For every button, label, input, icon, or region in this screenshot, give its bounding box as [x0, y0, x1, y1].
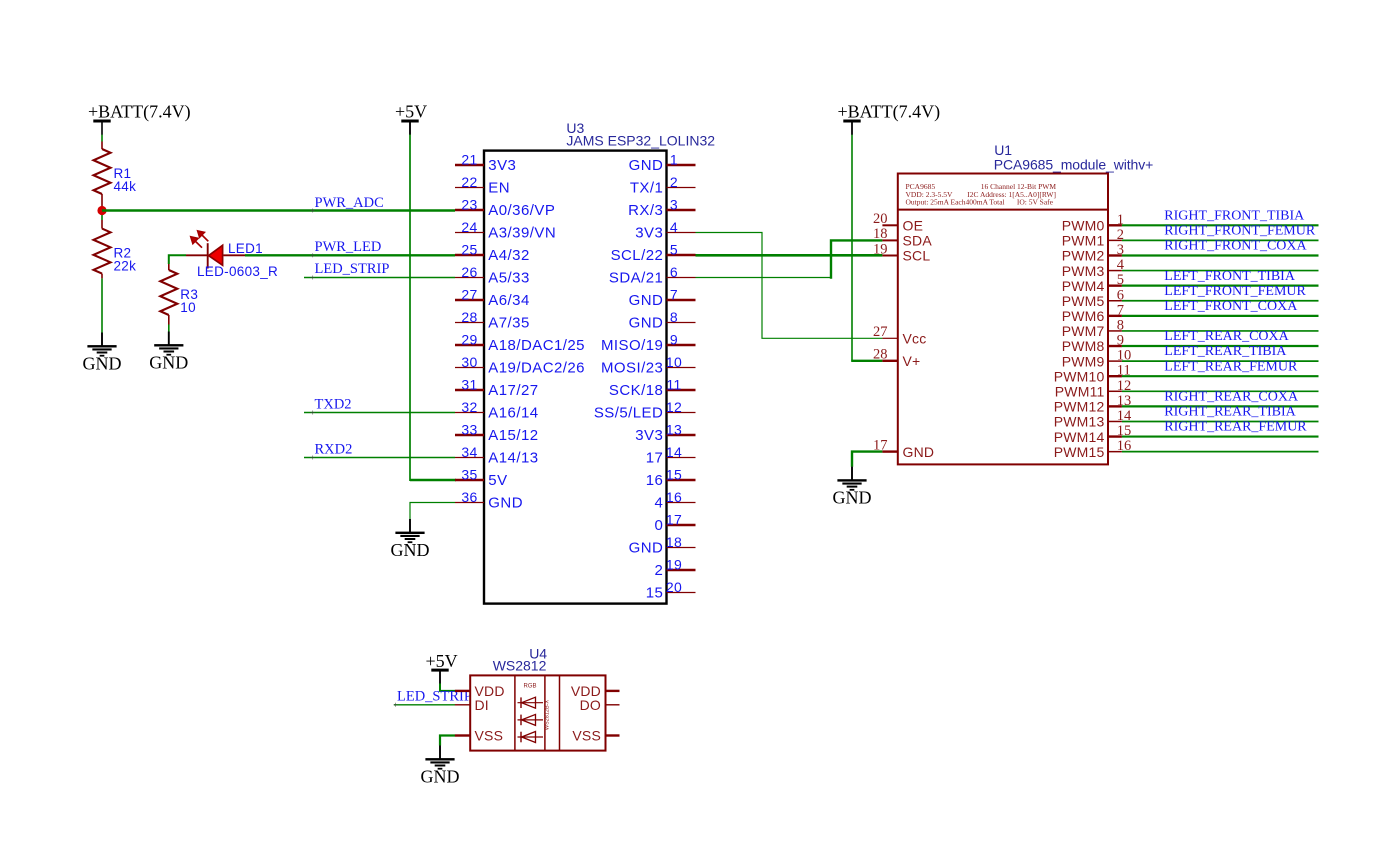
svg-text:27: 27 — [873, 324, 888, 340]
U1 pin 8 PWM7 — [1108, 330, 1122, 332]
lead R2 bottom — [101, 274, 103, 279]
svg-text:19: 19 — [873, 241, 888, 257]
svg-text:24: 24 — [461, 219, 477, 235]
wire +5V vertical — [409, 135, 411, 482]
svg-text:28: 28 — [461, 309, 477, 325]
svg-text:8: 8 — [670, 309, 678, 325]
svg-text:6: 6 — [670, 264, 678, 280]
svg-text:LEFT_REAR_FEMUR: LEFT_REAR_FEMUR — [1164, 359, 1298, 374]
U3 pin 27 A6/34 — [455, 299, 484, 302]
stem +BATT right — [851, 122, 853, 135]
svg-text:3: 3 — [670, 197, 678, 213]
svg-text:A5/33: A5/33 — [488, 270, 529, 287]
wire SCL net — [696, 254, 883, 257]
svg-text:RIGHT_REAR_FEMUR: RIGHT_REAR_FEMUR — [1164, 420, 1307, 435]
U3 pin 36 GND — [455, 502, 484, 504]
lead LED1 anode — [223, 254, 245, 256]
wire PWM3 net — [1122, 270, 1319, 272]
svg-text:PWR_LED: PWR_LED — [315, 239, 382, 255]
wire PWR_ADC net — [102, 209, 455, 211]
svg-text:TX/1: TX/1 — [630, 180, 663, 197]
U3 pin 11 SCK/18 — [667, 389, 696, 392]
svg-text:9: 9 — [670, 332, 678, 348]
svg-text:+5V: +5V — [395, 102, 427, 122]
U1 pin 16 PWM15 — [1108, 451, 1122, 453]
svg-text:PWM15: PWM15 — [1054, 444, 1105, 460]
wire U4 VSS to GND — [440, 736, 455, 746]
svg-text:A14/13: A14/13 — [488, 450, 538, 467]
U1 header separator — [898, 209, 1108, 211]
svg-text:A6/34: A6/34 — [488, 292, 529, 309]
svg-text:5: 5 — [670, 242, 678, 258]
svg-text:RXD2: RXD2 — [315, 441, 353, 457]
wire PWM13 net — [1122, 420, 1319, 422]
U1 pin 18 SDA — [882, 239, 897, 241]
U3 pin 2 TX/1 — [667, 187, 696, 189]
U1 pin 11 PWM10 — [1108, 375, 1122, 377]
U3 pin 5 SCL/22 — [667, 254, 696, 257]
svg-text:30: 30 — [461, 354, 477, 370]
svg-text:MOSI/23: MOSI/23 — [601, 360, 663, 377]
wire PWM6 net — [1122, 315, 1319, 317]
svg-text:GND: GND — [391, 540, 430, 560]
svg-text:PWM13: PWM13 — [1054, 414, 1105, 430]
LED LED1 — [207, 243, 209, 268]
wire PWR_LED corner — [169, 255, 186, 264]
svg-text:A4/32: A4/32 — [488, 247, 529, 264]
U3 pin 20 15 — [667, 592, 696, 594]
svg-text:PWM1: PWM1 — [1062, 233, 1105, 249]
svg-text:16: 16 — [666, 489, 682, 505]
U3 pin 25 A4/32 — [455, 254, 484, 257]
svg-text:PWM5: PWM5 — [1062, 293, 1105, 309]
svg-text:44k: 44k — [114, 179, 137, 194]
svg-text:VSS: VSS — [572, 728, 601, 744]
ground symbol GND under U3 — [409, 519, 411, 532]
U1 pin 12 PWM11 — [1108, 390, 1122, 392]
svg-text:LEFT_REAR_COXA: LEFT_REAR_COXA — [1164, 329, 1289, 344]
svg-text:2: 2 — [655, 562, 664, 579]
svg-text:SDA: SDA — [903, 233, 933, 249]
wire 3V3 pin4 to Vcc — [696, 233, 883, 339]
lead R1 bottom — [101, 194, 103, 206]
svg-text:LED1: LED1 — [228, 241, 263, 256]
svg-text:23: 23 — [461, 197, 477, 213]
svg-text:EN: EN — [488, 180, 510, 197]
wire PWM4 net — [1122, 285, 1319, 287]
U3 pin 1 GND — [667, 164, 696, 167]
U1 pin 17 GND — [882, 450, 897, 452]
U3 pin 15 16 — [667, 479, 696, 482]
svg-text:PWR_ADC: PWR_ADC — [315, 195, 384, 211]
svg-text:PWM14: PWM14 — [1054, 429, 1105, 445]
svg-text:A18/DAC1/25: A18/DAC1/25 — [488, 337, 585, 354]
U3 pin 22 EN — [455, 187, 484, 189]
U1 pin 19 SCL — [882, 255, 897, 257]
svg-text:3V3: 3V3 — [635, 225, 663, 242]
U3 pin 17 0 — [667, 524, 696, 527]
U3 pin 13 3V3 — [667, 434, 696, 437]
U1 pin 15 PWM14 — [1108, 435, 1122, 437]
U3 pin 30 A19/DAC2/26 — [455, 367, 484, 369]
svg-text:RGB: RGB — [523, 684, 536, 690]
svg-text:LEFT_FRONT_COXA: LEFT_FRONT_COXA — [1164, 299, 1298, 314]
svg-text:SS/5/LED: SS/5/LED — [594, 405, 663, 422]
U4 internal LED 2 — [518, 719, 544, 721]
svg-text:PWM9: PWM9 — [1062, 353, 1105, 369]
wire R2 to GND — [101, 278, 103, 332]
svg-text:WS2812B-X: WS2812B-X — [545, 700, 551, 731]
U1 pin 27 Vcc — [882, 337, 897, 339]
svg-text:LEFT_FRONT_FEMUR: LEFT_FRONT_FEMUR — [1164, 284, 1306, 299]
wire SDA net — [696, 277, 832, 279]
svg-text:A7/35: A7/35 — [488, 315, 529, 332]
wire TXD2 net — [304, 412, 455, 414]
svg-text:20: 20 — [873, 211, 888, 227]
svg-text:18: 18 — [873, 226, 888, 242]
U3 pin 34 A14/13 — [455, 457, 484, 459]
svg-text:TXD2: TXD2 — [315, 396, 352, 412]
svg-text:17: 17 — [873, 437, 888, 453]
svg-text:31: 31 — [461, 377, 477, 393]
svg-text:GND: GND — [833, 488, 872, 508]
svg-text:12: 12 — [666, 399, 682, 415]
U4 internal LED 3 — [518, 736, 544, 738]
svg-text:22: 22 — [461, 174, 477, 190]
svg-text:+5V: +5V — [426, 651, 458, 671]
svg-text:29: 29 — [461, 332, 477, 348]
U3 pin 29 A18/DAC1/25 — [455, 344, 484, 347]
stem +5V — [409, 122, 411, 135]
U3 pin 32 A16/14 — [455, 412, 484, 414]
svg-text:JAMS ESP32_LOLIN32: JAMS ESP32_LOLIN32 — [566, 132, 715, 148]
svg-text:Vcc: Vcc — [903, 331, 927, 347]
lead LED1 cathode — [186, 254, 208, 256]
junction node PWR_ADC — [97, 206, 106, 215]
U1 pin 9 PWM8 — [1108, 345, 1122, 347]
svg-text:A0/36/VP: A0/36/VP — [488, 202, 555, 219]
wire +BATT to V+ — [851, 135, 853, 361]
svg-text:18: 18 — [666, 534, 682, 550]
svg-text:32: 32 — [461, 399, 477, 415]
svg-text:15: 15 — [666, 467, 682, 483]
U3 pin 16 4 — [667, 502, 696, 504]
wire LED_STRIP net — [304, 277, 455, 279]
U3 pin 33 A15/12 — [455, 434, 484, 437]
U3 pin 14 17 — [667, 457, 696, 459]
svg-text:17: 17 — [666, 512, 682, 528]
svg-text:DO: DO — [580, 697, 601, 713]
svg-text:27: 27 — [461, 287, 477, 303]
svg-text:25: 25 — [461, 242, 477, 258]
svg-text:3V3: 3V3 — [488, 157, 516, 174]
U4 pin VSS left — [455, 734, 470, 736]
U1 pin 5 PWM4 — [1108, 284, 1122, 286]
svg-text:OE: OE — [903, 218, 924, 234]
U3 pin 23 A0/36/VP — [455, 209, 484, 212]
wire PWM1 net — [1122, 239, 1319, 241]
svg-text:22k: 22k — [114, 259, 137, 274]
svg-text:GND: GND — [629, 315, 664, 332]
svg-text:PWM12: PWM12 — [1054, 399, 1105, 415]
U1 pin 6 PWM5 — [1108, 300, 1122, 302]
svg-text:RX/3: RX/3 — [628, 202, 663, 219]
svg-text:PWM4: PWM4 — [1062, 278, 1105, 294]
svg-text:10: 10 — [180, 300, 196, 315]
svg-text:34: 34 — [461, 444, 477, 460]
wire PWM12 net — [1122, 405, 1319, 407]
wire R3 to GND — [168, 325, 170, 332]
svg-text:0: 0 — [655, 517, 664, 534]
svg-text:SDA/21: SDA/21 — [609, 270, 663, 287]
lead R2 top — [101, 220, 103, 229]
svg-text:35: 35 — [461, 467, 477, 483]
U3 pin 26 A5/33 — [455, 277, 484, 279]
U3 pin 9 MISO/19 — [667, 344, 696, 347]
resistor R3 — [160, 270, 177, 315]
svg-text:1: 1 — [670, 152, 678, 168]
U1 pin 3 PWM2 — [1108, 254, 1122, 256]
svg-text:SCL/22: SCL/22 — [611, 247, 664, 264]
svg-text:VSS: VSS — [475, 728, 504, 744]
svg-text:13: 13 — [666, 422, 682, 438]
ground symbol GND under U4 — [439, 746, 441, 759]
ground symbol GND under U1 — [851, 467, 853, 480]
U3 pin 19 2 — [667, 569, 696, 572]
svg-text:PWM7: PWM7 — [1062, 323, 1105, 339]
U1 pin 20 OE — [882, 224, 897, 226]
svg-text:A19/DAC2/26: A19/DAC2/26 — [488, 360, 585, 377]
wire R1 to junction — [101, 206, 103, 220]
svg-text:28: 28 — [873, 347, 888, 363]
U3 pin 6 SDA/21 — [667, 277, 696, 279]
svg-text:GND: GND — [629, 292, 664, 309]
svg-text:WS2812: WS2812 — [493, 657, 547, 673]
svg-text:4: 4 — [670, 219, 678, 235]
wire PWM2 net — [1122, 254, 1319, 256]
svg-text:16: 16 — [646, 472, 664, 489]
svg-text:PCA9685_module_withv+: PCA9685_module_withv+ — [994, 156, 1153, 172]
IC U1 PCA9685_module_withv+ — [898, 174, 1108, 465]
wire LED_STRIP to U4 DI — [394, 704, 455, 706]
U4 divider 3 — [559, 675, 561, 750]
svg-text:LED_STRIP: LED_STRIP — [315, 261, 390, 277]
svg-text:2: 2 — [670, 174, 678, 190]
svg-text:11: 11 — [666, 377, 681, 393]
wire PWM11 net — [1122, 390, 1319, 392]
svg-text:17: 17 — [646, 450, 664, 467]
lead R3 top — [168, 264, 170, 270]
U1 pin 10 PWM9 — [1108, 360, 1122, 362]
svg-text:26: 26 — [461, 264, 477, 280]
svg-text:RIGHT_REAR_COXA: RIGHT_REAR_COXA — [1164, 389, 1299, 404]
U4 pin DO right — [606, 704, 620, 706]
lead R1 top — [101, 142, 103, 150]
svg-text:LEFT_FRONT_TIBIA: LEFT_FRONT_TIBIA — [1164, 269, 1296, 284]
svg-text:Output: 25mA Each400mA Total: Output: 25mA Each400mA Total — [906, 198, 1005, 207]
svg-text:V+: V+ — [903, 353, 921, 369]
svg-text:GND: GND — [629, 540, 664, 557]
U1 pin 4 PWM3 — [1108, 270, 1122, 272]
svg-text:IO: 5V Safe: IO: 5V Safe — [1017, 198, 1054, 207]
U3 pin 24 A3/39/VN — [455, 232, 484, 234]
wire U1 GND pin17 — [852, 452, 882, 467]
U1 pin 7 PWM6 — [1108, 315, 1122, 317]
wire +5V to U4 VDD — [440, 684, 455, 691]
svg-text:RIGHT_FRONT_COXA: RIGHT_FRONT_COXA — [1164, 239, 1307, 254]
wire RXD2 net — [304, 457, 455, 459]
svg-text:GND: GND — [83, 354, 122, 374]
U3 pin 7 GND — [667, 299, 696, 302]
svg-text:RIGHT_REAR_TIBIA: RIGHT_REAR_TIBIA — [1164, 405, 1296, 420]
U3 pin 31 A17/27 — [455, 389, 484, 392]
svg-text:MISO/19: MISO/19 — [601, 337, 663, 354]
svg-text:DI: DI — [475, 697, 489, 713]
ground symbol GND under R3 — [168, 332, 170, 345]
wire +5V to pin35 — [410, 479, 456, 482]
svg-text:GND: GND — [629, 157, 664, 174]
U4 divider 2 — [544, 675, 546, 750]
U4 divider 1 — [514, 675, 516, 750]
wire pin36 to GND — [410, 503, 455, 520]
svg-text:3V3: 3V3 — [635, 427, 663, 444]
resistor R1 — [94, 149, 111, 194]
svg-text:A15/12: A15/12 — [488, 427, 538, 444]
svg-text:7: 7 — [670, 287, 678, 303]
stem +5V U4 — [439, 671, 441, 684]
U4 pin DI left — [455, 704, 470, 706]
svg-text:PWM3: PWM3 — [1062, 263, 1105, 279]
wire PWM5 net — [1122, 300, 1319, 302]
svg-text:GND: GND — [903, 444, 935, 460]
wire PWM10 net — [1122, 375, 1319, 377]
svg-text:GND: GND — [421, 767, 460, 787]
U3 pin 4 3V3 — [667, 232, 696, 234]
svg-text:33: 33 — [461, 422, 477, 438]
U3 pin 8 GND — [667, 322, 696, 324]
svg-text:20: 20 — [666, 579, 682, 595]
wire PWM7 net — [1122, 330, 1319, 332]
svg-text:PWM10: PWM10 — [1054, 368, 1105, 384]
svg-text:PWM0: PWM0 — [1062, 218, 1105, 234]
U4 pin VSS right — [606, 734, 620, 736]
U3 pin 21 3V3 — [455, 164, 484, 167]
svg-text:SCL: SCL — [903, 248, 931, 264]
lead R3 bottom — [168, 315, 170, 325]
wire PWM9 net — [1122, 360, 1319, 362]
svg-text:PWM11: PWM11 — [1055, 383, 1105, 399]
svg-text:GND: GND — [149, 353, 188, 373]
wire PWM14 net — [1122, 435, 1319, 437]
U4 pin VDD left — [455, 690, 470, 692]
U3 pin 10 MOSI/23 — [667, 367, 696, 369]
svg-text:A3/39/VN: A3/39/VN — [488, 225, 556, 242]
svg-text:A17/27: A17/27 — [488, 382, 538, 399]
wire PWM15 net — [1122, 451, 1319, 453]
U3 pin 18 GND — [667, 547, 696, 549]
U3 pin 12 SS/5/LED — [667, 412, 696, 414]
svg-text:PWM2: PWM2 — [1062, 248, 1105, 264]
svg-text:LED-0603_R: LED-0603_R — [197, 264, 278, 279]
svg-text:36: 36 — [461, 489, 477, 505]
svg-text:A16/14: A16/14 — [488, 405, 538, 422]
U1 pin 13 PWM12 — [1108, 405, 1122, 407]
U3 pin 3 RX/3 — [667, 209, 696, 212]
U1 pin 28 V+ — [882, 360, 897, 362]
wire PWM8 net — [1122, 345, 1319, 347]
resistor R2 — [94, 229, 111, 274]
U1 pin 2 PWM1 — [1108, 239, 1122, 241]
svg-text:19: 19 — [666, 557, 682, 573]
svg-text:4: 4 — [655, 495, 664, 512]
wire PWM0 net — [1122, 224, 1319, 226]
ground symbol GND under R2 — [101, 333, 103, 346]
U4 internal LED 1 — [518, 702, 544, 704]
U3 pin 35 5V — [455, 479, 484, 482]
svg-text:LEFT_REAR_TIBIA: LEFT_REAR_TIBIA — [1164, 344, 1287, 359]
U3 pin 28 A7/35 — [455, 322, 484, 324]
svg-text:PWM6: PWM6 — [1062, 308, 1105, 324]
svg-text:PWM8: PWM8 — [1062, 338, 1105, 354]
U4 pin VDD right — [606, 690, 620, 692]
U1 pin 1 PWM0 — [1108, 224, 1122, 226]
svg-text:RIGHT_FRONT_TIBIA: RIGHT_FRONT_TIBIA — [1164, 208, 1305, 223]
U1 pin 14 PWM13 — [1108, 420, 1122, 422]
svg-text:15: 15 — [646, 585, 664, 602]
svg-text:10: 10 — [666, 354, 682, 370]
svg-text:14: 14 — [666, 444, 682, 460]
wire PWR_LED net — [245, 254, 455, 256]
svg-text:GND: GND — [488, 495, 523, 512]
IC U3 JAMS ESP32_LOLIN32 — [484, 151, 667, 604]
svg-text:SCK/18: SCK/18 — [609, 382, 663, 399]
svg-text:21: 21 — [461, 152, 477, 168]
wire +BATT to R1 — [101, 135, 103, 142]
svg-text:RIGHT_FRONT_FEMUR: RIGHT_FRONT_FEMUR — [1164, 223, 1316, 238]
svg-text:5V: 5V — [488, 472, 507, 489]
